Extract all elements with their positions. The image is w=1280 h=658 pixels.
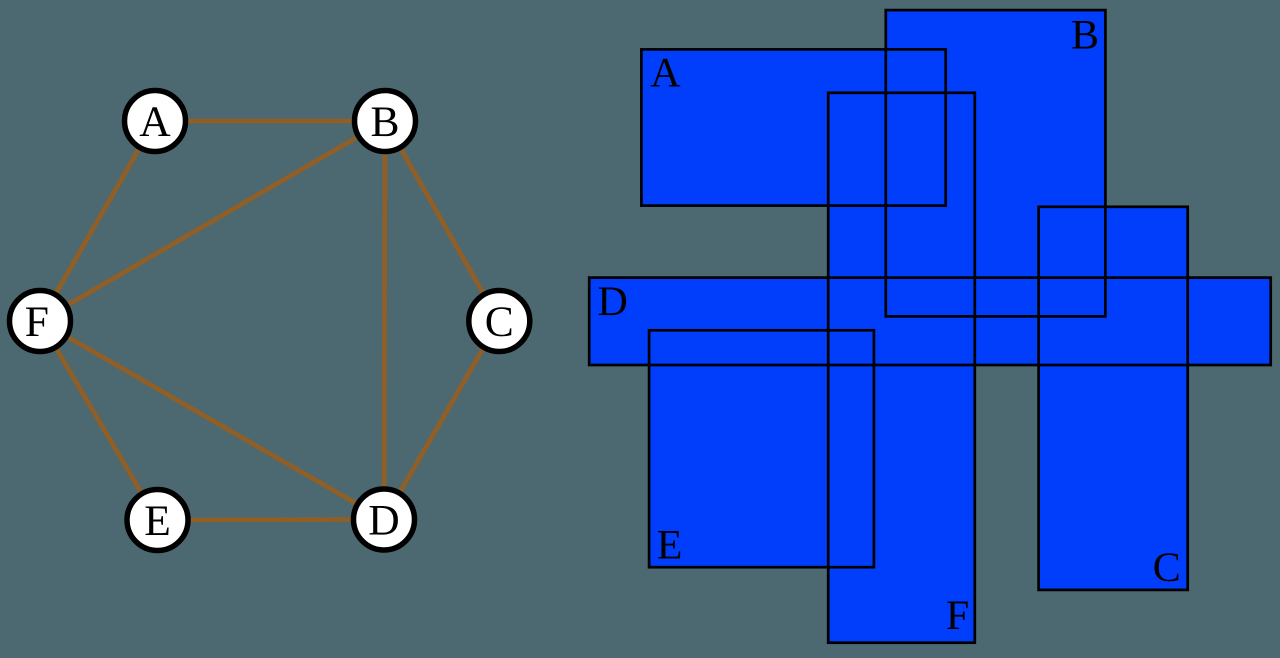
wire edge B-D	[384, 121, 385, 520]
svg-text:B: B	[1071, 12, 1099, 58]
wire edge C-D	[384, 321, 499, 520]
box F outline	[828, 93, 975, 643]
svg-text:B: B	[370, 98, 399, 146]
box C fill	[1039, 207, 1188, 590]
svg-text:E: E	[144, 497, 171, 545]
node B	[355, 91, 416, 152]
node D	[354, 489, 415, 550]
wire edge E-F	[40, 321, 158, 520]
wire edge D-F	[40, 321, 384, 520]
svg-text:A: A	[139, 98, 171, 146]
node F	[10, 291, 71, 352]
wire edge B-F	[40, 121, 385, 321]
svg-text:C: C	[1153, 545, 1181, 591]
node A	[125, 91, 186, 152]
wire edge B-C	[385, 121, 499, 321]
box D fill	[589, 278, 1270, 365]
wire edge D-E	[158, 517, 385, 522]
node C	[469, 291, 530, 352]
box A fill	[641, 49, 945, 205]
box C outline	[1039, 207, 1188, 590]
svg-text:E: E	[657, 523, 683, 569]
box B fill	[886, 10, 1106, 316]
svg-text:C: C	[485, 298, 514, 346]
wire edge A-F	[40, 121, 155, 321]
svg-text:D: D	[368, 497, 399, 545]
svg-text:A: A	[650, 50, 681, 96]
svg-text:F: F	[946, 593, 969, 639]
box E fill	[649, 330, 874, 567]
box F fill	[828, 93, 975, 643]
box B outline	[886, 10, 1106, 316]
box D outline	[589, 278, 1270, 365]
box A outline	[641, 49, 945, 205]
node E	[127, 490, 188, 551]
box E outline	[649, 330, 874, 567]
svg-text:D: D	[598, 279, 628, 325]
wire edge A-B	[155, 119, 385, 124]
svg-text:F: F	[25, 298, 49, 346]
